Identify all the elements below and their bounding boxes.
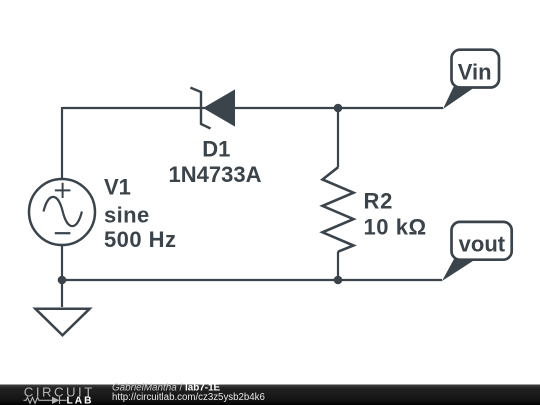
svg-text:sine: sine — [104, 202, 150, 227]
svg-text:10 kΩ: 10 kΩ — [364, 215, 427, 240]
svg-text:1N4733A: 1N4733A — [169, 162, 262, 187]
svg-text:Vin: Vin — [458, 60, 492, 85]
svg-text:500 Hz: 500 Hz — [104, 227, 176, 252]
svg-text:vout: vout — [459, 232, 506, 257]
svg-text:V1: V1 — [104, 175, 131, 200]
svg-text:R2: R2 — [364, 189, 394, 214]
svg-text:D1: D1 — [202, 137, 230, 162]
svg-text:LAB: LAB — [67, 396, 94, 405]
svg-text:http://circuitlab.com/cz3z5ysb: http://circuitlab.com/cz3z5ysb2b4k6 — [112, 392, 265, 403]
